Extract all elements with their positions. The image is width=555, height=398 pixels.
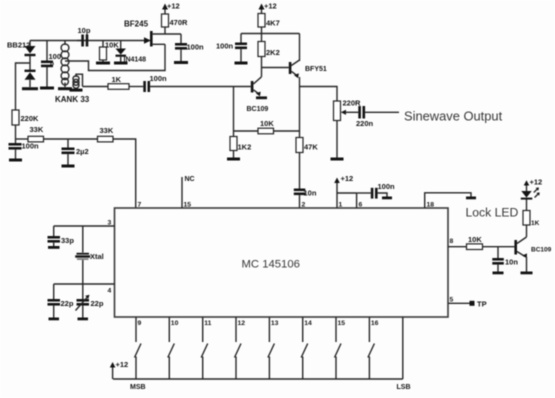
svg-text:33p: 33p — [61, 236, 74, 245]
ground 100n (Vdd) — [382, 197, 392, 200]
transistor Q2 BC109 — [247, 77, 269, 113]
svg-text:15: 15 — [184, 202, 192, 209]
resistor 1K2 — [230, 137, 251, 158]
transistor Q1 BF245 label — [124, 20, 149, 29]
svg-text:BC109: BC109 — [531, 247, 552, 254]
pin 14 — [303, 317, 312, 342]
pin 10 — [169, 317, 178, 342]
crystal Xtal — [75, 226, 104, 284]
resistor 220K — [12, 110, 39, 139]
ground 22p — [49, 318, 60, 321]
node MSB — [130, 384, 146, 391]
svg-text:BC109: BC109 — [247, 106, 269, 113]
pin 3 wire — [54, 220, 115, 227]
svg-text:10K: 10K — [105, 41, 119, 50]
svg-text:4K7: 4K7 — [266, 19, 280, 28]
svg-text:220K: 220K — [21, 114, 40, 123]
svg-text:470R: 470R — [170, 18, 189, 27]
ground 2u2 — [62, 165, 75, 168]
resistor 10K (lock) — [467, 235, 483, 250]
resistor 10K (feedback) — [234, 119, 300, 134]
diode 1N4148 — [116, 41, 147, 64]
wire emitter node to pot — [300, 87, 338, 102]
svg-text:12: 12 — [238, 320, 246, 327]
power +12 (LED) — [524, 178, 543, 189]
pin 5 test point TP — [448, 297, 487, 309]
svg-text:1K2: 1K2 — [238, 143, 252, 152]
svg-text:BF245: BF245 — [124, 20, 149, 29]
wire secondary to 1K — [83, 86, 109, 88]
svg-text:10K: 10K — [468, 235, 482, 244]
svg-text:+12: +12 — [530, 178, 543, 187]
ground 100p — [40, 87, 54, 90]
ground 1N4148 — [114, 62, 128, 65]
wire rail to pin 17 — [402, 317, 404, 379]
ground 100n (BF245) — [174, 61, 188, 64]
svg-text:1K: 1K — [531, 220, 540, 227]
svg-text:MSB: MSB — [130, 384, 146, 391]
ground 10K — [96, 62, 110, 65]
svg-text:2K2: 2K2 — [266, 48, 280, 57]
resistor 10K top — [100, 41, 120, 62]
capacitor 10n (lock) — [492, 247, 518, 272]
pin 13 — [269, 317, 278, 342]
wire 10K to BC109 base — [483, 246, 515, 248]
resistor 47K — [296, 138, 318, 189]
svg-text:KANK 33: KANK 33 — [55, 95, 90, 104]
wire 220n to output — [365, 111, 399, 113]
svg-text:NC: NC — [185, 176, 195, 183]
switch S12 — [235, 344, 242, 380]
wire BFY51 emitter down — [299, 77, 301, 138]
wire BC109 base to 1K2 — [233, 87, 235, 137]
svg-text:100n: 100n — [22, 142, 40, 151]
svg-text:6: 6 — [359, 202, 363, 209]
pin 15 — [336, 317, 345, 342]
capacitor 100n (loop filter) — [9, 139, 40, 159]
capacitor 100p — [41, 41, 61, 87]
capacitor 2u2 — [62, 139, 89, 165]
svg-text:8: 8 — [450, 238, 454, 245]
svg-text:BFY51: BFY51 — [305, 66, 327, 73]
svg-text:9: 9 — [138, 320, 142, 327]
inductor KANK33 secondary — [73, 74, 83, 89]
svg-text:+12: +12 — [167, 2, 180, 11]
resistor 33K a — [28, 125, 44, 142]
pin 15 NC stub — [182, 176, 195, 209]
svg-text:+12: +12 — [341, 174, 354, 183]
wire 1K to 100n — [129, 86, 143, 88]
ground BB212 — [22, 87, 38, 90]
svg-text:11: 11 — [204, 320, 211, 327]
svg-text:Xtal: Xtal — [90, 252, 104, 261]
pin 9 — [136, 317, 142, 342]
transistor Q4 BC109 (lock) — [514, 237, 551, 258]
transistor Q1 BF245 JFET — [144, 31, 181, 47]
ground 100n (4K7) — [235, 62, 248, 65]
pin 1 — [337, 193, 343, 209]
ground BC109 emitter — [256, 96, 267, 99]
ground BC109 (lock) — [521, 272, 533, 275]
ground pin 18 — [466, 197, 476, 200]
ground trimmer — [78, 318, 89, 321]
switch S11 — [201, 344, 208, 380]
pin 8 wire — [448, 238, 467, 247]
capacitor 10n (pin2) — [294, 189, 317, 209]
transistor Q3 BFY51 — [289, 60, 327, 78]
svg-text:3: 3 — [108, 220, 112, 227]
varicap BB212 label — [7, 41, 30, 50]
svg-text:100n: 100n — [378, 182, 396, 191]
wire top gate line — [30, 40, 145, 42]
svg-text:+12: +12 — [264, 2, 277, 11]
svg-text:14: 14 — [304, 320, 312, 327]
svg-text:22p: 22p — [91, 299, 104, 308]
power +12 (pins 1 and 6) — [334, 174, 353, 193]
svg-text:100n: 100n — [187, 43, 205, 52]
resistor 4K7 — [258, 14, 280, 42]
svg-text:16: 16 — [371, 320, 379, 327]
op-amp U1 MC145106 IC body — [115, 208, 449, 317]
resistor 33K b — [98, 126, 114, 142]
ground KANK33 secondary — [70, 89, 83, 92]
capacitor 100n (4K7 decoupling) — [216, 34, 247, 62]
svg-text:2µ2: 2µ2 — [76, 147, 89, 156]
svg-text:+12: +12 — [116, 360, 129, 369]
svg-text:p: p — [50, 61, 54, 68]
resistor 1K (LED) — [523, 211, 540, 228]
capacitor 100n (Vdd decoupling) — [357, 182, 395, 199]
LED lock — [521, 187, 540, 210]
svg-text:Sinewave Output: Sinewave Output — [404, 109, 503, 124]
svg-text:10p: 10p — [78, 26, 91, 35]
svg-text:2: 2 — [302, 202, 306, 209]
switch S10 — [168, 344, 175, 380]
wire BC109 collector to 2K2 — [261, 57, 263, 77]
svg-text:7: 7 — [138, 202, 142, 209]
switch S14 — [301, 344, 308, 380]
potentiometer 220R — [334, 99, 362, 121]
switch S15 — [335, 344, 342, 380]
ground 33p — [48, 246, 60, 249]
ground 1K2 — [227, 158, 240, 161]
pin 16 — [369, 317, 378, 342]
wire 100n to BC109 base — [150, 86, 251, 88]
capacitor trimmer 22p — [76, 284, 104, 318]
pin 6 — [337, 193, 363, 209]
inductor KANK33 primary — [61, 41, 69, 88]
ground 10n (lock) — [493, 272, 504, 275]
wire top mid rail — [241, 33, 300, 35]
capacitor 100n (coupling) — [143, 74, 167, 92]
switch S13 — [268, 344, 275, 380]
svg-text:10K: 10K — [260, 119, 274, 128]
label KANK 33 — [55, 95, 90, 104]
svg-text:5: 5 — [450, 297, 454, 304]
svg-text:15: 15 — [338, 320, 346, 327]
svg-text:220R: 220R — [343, 99, 362, 108]
power +12 (4K7) — [259, 2, 277, 14]
pin 2 — [302, 202, 306, 209]
svg-text:10n: 10n — [505, 258, 518, 267]
svg-text:10n: 10n — [304, 189, 317, 198]
node LSB — [397, 384, 411, 391]
svg-text:MC 145106: MC 145106 — [242, 259, 300, 271]
svg-text:10: 10 — [171, 320, 179, 327]
svg-text:4: 4 — [108, 288, 112, 295]
pin 7 — [138, 202, 142, 209]
wire collector to 1K — [526, 225, 528, 237]
capacitor 220n — [356, 106, 374, 128]
svg-text:1: 1 — [339, 202, 343, 209]
node Sinewave Output — [404, 109, 503, 124]
capacitor 22p — [48, 284, 74, 318]
ground 100n (loop filter) — [9, 159, 22, 162]
svg-text:18: 18 — [427, 202, 435, 209]
resistor 470R — [162, 14, 189, 34]
svg-text:100n: 100n — [150, 74, 168, 83]
switch S9 — [135, 344, 142, 380]
ground 220R — [331, 158, 344, 161]
resistor 1K (coupling) — [108, 75, 129, 89]
svg-text:33K: 33K — [100, 126, 114, 135]
svg-text:13: 13 — [271, 320, 279, 327]
capacitor 10p — [77, 26, 91, 47]
resistor 2K2 — [258, 42, 280, 58]
svg-text:220n: 220n — [356, 119, 374, 128]
power +12 (BF245 drain) — [162, 2, 180, 15]
wire pot bottom — [336, 121, 338, 158]
svg-text:Lock LED: Lock LED — [466, 206, 519, 220]
wire +12 rail — [113, 378, 403, 380]
svg-text:33K: 33K — [30, 125, 44, 134]
varicap D1a BB212 — [25, 41, 36, 71]
node Lock LED label — [466, 206, 519, 220]
capacitor 33p — [48, 226, 75, 246]
wire BC109 emitter — [526, 257, 528, 272]
switch S16 — [368, 344, 375, 380]
pin 18 to ground — [425, 193, 471, 209]
svg-text:47K: 47K — [304, 143, 318, 152]
wire coil tap feedback — [65, 44, 165, 70]
varicap D1b BB212 — [25, 70, 36, 87]
power +12 (rail) — [110, 360, 128, 379]
wire BFY51 base — [262, 67, 289, 69]
svg-text:TP: TP — [477, 300, 487, 309]
ground KANK33 primary — [58, 87, 72, 90]
pin 4 wire — [54, 284, 115, 295]
wire varicap tap to 220K — [16, 63, 31, 110]
svg-text:1K: 1K — [112, 75, 122, 84]
svg-text:22p: 22p — [61, 299, 74, 308]
svg-text:100n: 100n — [216, 42, 234, 51]
pin 11 — [203, 317, 212, 342]
capacitor 100n (BF245 drain) — [175, 34, 204, 61]
svg-text:LSB: LSB — [397, 384, 411, 391]
wire 33K row — [16, 139, 136, 208]
pin 12 — [236, 317, 245, 342]
wire BFY51 collector — [299, 34, 301, 62]
